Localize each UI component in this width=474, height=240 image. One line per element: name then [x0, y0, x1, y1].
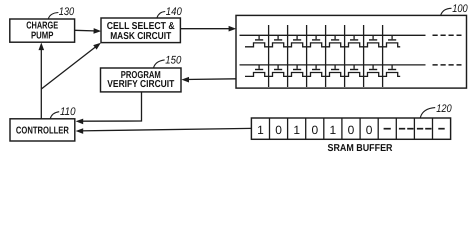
transistor cell M2-5 floating gate bar [331, 69, 339, 71]
transistor cell M2-3 gate tick [296, 65, 298, 69]
wire SRAM cell divider 2 [287, 118, 289, 139]
wire bitline BL2 [287, 25, 289, 87]
svg-text:MASK CIRCUIT: MASK CIRCUIT [110, 31, 171, 42]
transistor cell M2-3 floating gate bar [293, 69, 301, 71]
wire SRAM cell divider 6 [359, 118, 361, 139]
wire SRAM cell divider 9 [413, 118, 415, 139]
transistor cell M2-5 channel [326, 73, 345, 77]
transistor cell M2-8 gate tick [391, 65, 393, 69]
transistor cell M1-2 channel [269, 43, 288, 47]
block U4 CONTROLLER box [10, 119, 75, 141]
text SRAM don't-care dash 5 [425, 128, 431, 130]
transistor cell M1-8 floating gate bar [388, 39, 396, 41]
transistor cell M2-1 gate tick [258, 65, 260, 69]
label 150 leader [154, 60, 165, 68]
wire SRAM cell divider 8 [395, 118, 397, 139]
svg-text:130: 130 [59, 6, 75, 18]
wire bitline BL6 [363, 25, 365, 87]
wire word line WL2 dashed continuation [433, 64, 462, 66]
arrow into controller upper [76, 119, 84, 125]
svg-text:120: 120 [436, 103, 452, 115]
wire SRAM cell divider 7 [377, 118, 379, 139]
transistor cell M1-8 channel [383, 43, 401, 47]
transistor cell M1-6 channel [345, 43, 364, 47]
wire controller to charge pump [40, 46, 42, 119]
wire SRAM cell divider 5 [341, 118, 343, 139]
transistor cell M1-7 channel [364, 43, 383, 47]
svg-text:140: 140 [166, 6, 183, 18]
arrow into controller lower [76, 128, 84, 134]
wire charge pump to cell select [75, 29, 98, 32]
wire word line WL1 [240, 34, 426, 36]
wire controller to cell select diagonal [41, 45, 98, 89]
transistor cell M2-2 gate tick [277, 65, 279, 69]
block U2 CELL SELECT & MASK CIRCUIT box [101, 18, 180, 43]
block U3 PROGRAM VERIFY CIRCUIT box [101, 68, 182, 92]
wire bitline BL3 [306, 25, 308, 87]
transistor cell M1-2 floating gate bar [274, 39, 282, 41]
transistor cell M1-7 gate tick [372, 35, 374, 39]
wire word line WL2 [240, 64, 426, 66]
wire program verify to controller [79, 92, 142, 121]
label 110 leader [50, 112, 59, 119]
transistor cell M1-6 gate tick [353, 35, 355, 39]
transistor cell M1-4 floating gate bar [312, 39, 320, 41]
transistor cell M1-1 gate tick [258, 35, 260, 39]
transistor cell M1-3 channel [288, 43, 307, 47]
transistor cell M1-7 floating gate bar [369, 39, 377, 41]
wire SRAM cell divider 10 [432, 118, 434, 139]
transistor cell M1-8 gate tick [391, 35, 393, 39]
label 140 leader [157, 12, 165, 18]
transistor cell M2-6 floating gate bar [350, 69, 358, 71]
svg-text:SRAM BUFFER: SRAM BUFFER [328, 143, 394, 154]
svg-text:CHARGE: CHARGE [26, 20, 58, 31]
arrow into charge pump [39, 43, 45, 51]
svg-text:1: 1 [257, 123, 264, 137]
wire bitline BL1 [268, 25, 270, 87]
transistor cell M1-3 gate tick [296, 35, 298, 39]
block U6 SRAM buffer box [251, 118, 450, 139]
text SRAM don't-care dash 3 [407, 128, 413, 130]
wire array to program verify [185, 78, 237, 81]
svg-text:0: 0 [275, 123, 282, 137]
svg-text:0: 0 [311, 123, 318, 137]
wire word line WL1 dashed continuation [433, 34, 462, 36]
transistor cell M2-4 floating gate bar [312, 69, 320, 71]
svg-text:PUMP: PUMP [31, 31, 54, 42]
svg-text:CONTROLLER: CONTROLLER [16, 126, 70, 137]
transistor cell M2-1 channel [245, 73, 269, 77]
transistor cell M2-7 gate tick [372, 65, 374, 69]
block U1 CHARGE PUMP box [10, 19, 75, 42]
transistor cell M1-4 gate tick [315, 35, 317, 39]
transistor cell M2-8 floating gate bar [388, 69, 396, 71]
transistor cell M2-2 floating gate bar [274, 69, 282, 71]
label 100 leader [441, 8, 452, 15]
text SRAM don't-care dash 2 [399, 128, 405, 130]
transistor cell M1-6 floating gate bar [350, 39, 358, 41]
transistor cell M2-7 floating gate bar [369, 69, 377, 71]
text SRAM don't-care dash 1 [384, 128, 391, 130]
transistor cell M2-2 channel [269, 73, 288, 77]
transistor cell M2-6 gate tick [353, 65, 355, 69]
transistor cell M2-4 gate tick [315, 65, 317, 69]
wire bitline BL5 [344, 25, 346, 87]
svg-text:1: 1 [293, 123, 300, 137]
wire SRAM cell divider 4 [323, 118, 325, 139]
arrow into cell select corner [93, 43, 101, 50]
transistor cell M1-4 channel [307, 43, 326, 47]
label 130 leader [48, 13, 58, 19]
arrow into array [229, 26, 237, 32]
transistor cell M2-4 channel [307, 73, 326, 77]
transistor cell M1-5 floating gate bar [331, 39, 339, 41]
text SRAM don't-care dash 4 [417, 128, 423, 130]
transistor cell M2-5 gate tick [334, 65, 336, 69]
wire SRAM buffer to controller [79, 128, 251, 131]
text SRAM don't-care dash 6 [438, 128, 444, 130]
svg-text:0: 0 [348, 123, 355, 137]
arrow into cell select [94, 28, 102, 34]
transistor cell M1-5 channel [326, 43, 345, 47]
transistor cell M2-3 channel [288, 73, 307, 77]
transistor cell M1-1 floating gate bar [255, 39, 263, 41]
svg-text:VERIFY CIRCUIT: VERIFY CIRCUIT [107, 79, 174, 90]
svg-text:110: 110 [60, 106, 76, 118]
transistor cell M1-3 floating gate bar [293, 39, 301, 41]
wire bitline BL4 [325, 25, 327, 87]
block U5 memory cell array box [236, 15, 467, 88]
svg-text:150: 150 [165, 54, 182, 66]
svg-text:100: 100 [452, 3, 468, 15]
transistor cell M1-5 gate tick [334, 35, 336, 39]
label 120 leader [420, 108, 435, 118]
wire bitline BL7 [382, 25, 384, 87]
arrow into program verify [181, 77, 189, 83]
transistor cell M1-2 gate tick [277, 35, 279, 39]
transistor cell M2-6 channel [345, 73, 364, 77]
svg-text:0: 0 [366, 123, 373, 137]
wire cell select to array [180, 28, 233, 30]
transistor cell M2-1 floating gate bar [255, 69, 263, 71]
wire SRAM cell divider 1 [269, 118, 271, 139]
wire SRAM cell divider 3 [305, 118, 307, 139]
transistor cell M2-7 channel [364, 73, 383, 77]
svg-text:1: 1 [330, 123, 337, 137]
transistor cell M1-1 channel [245, 43, 269, 47]
transistor cell M2-8 channel [383, 73, 401, 77]
